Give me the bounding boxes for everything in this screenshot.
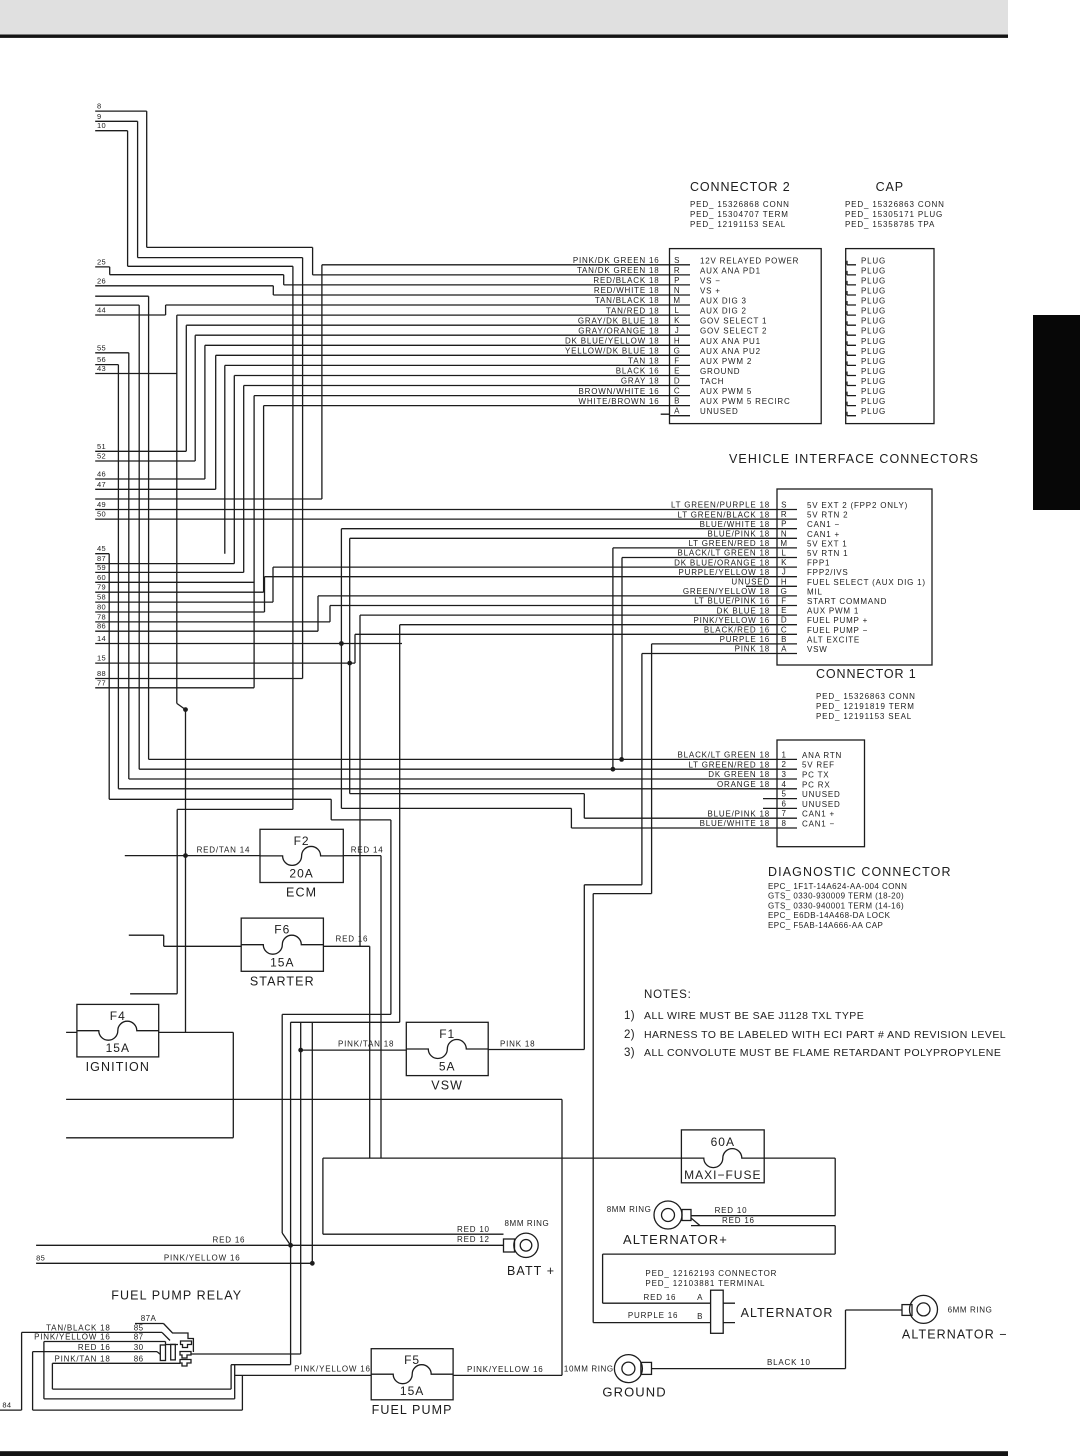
- svg-text:88: 88: [97, 669, 106, 678]
- svg-text:RED 16: RED 16: [722, 1216, 755, 1225]
- svg-text:VEHICLE INTERFACE CONNECTORS: VEHICLE INTERFACE CONNECTORS: [729, 452, 979, 466]
- svg-text:GOV SELECT 2: GOV SELECT 2: [700, 327, 767, 336]
- svg-text:RED 10: RED 10: [457, 1225, 490, 1234]
- svg-text:RED 16: RED 16: [78, 1343, 111, 1352]
- svg-text:AUX PWM 1: AUX PWM 1: [807, 607, 859, 616]
- svg-text:AUX ANA PU2: AUX ANA PU2: [700, 347, 761, 356]
- svg-text:PC RX: PC RX: [802, 780, 830, 789]
- svg-text:RED/BLACK 18: RED/BLACK 18: [593, 276, 659, 285]
- svg-text:CAN1 +: CAN1 +: [802, 810, 835, 819]
- svg-text:L: L: [675, 306, 680, 315]
- svg-text:BLUE/WHITE 18: BLUE/WHITE 18: [700, 520, 770, 529]
- svg-text:FUEL PUMP: FUEL PUMP: [372, 1403, 453, 1417]
- svg-text:FUEL PUMP −: FUEL PUMP −: [807, 626, 868, 635]
- svg-text:PLUG: PLUG: [861, 317, 886, 326]
- svg-text:DIAGNOSTIC CONNECTOR: DIAGNOSTIC CONNECTOR: [768, 865, 952, 879]
- svg-text:30: 30: [134, 1343, 144, 1352]
- svg-text:PED_ 12191819 TERM: PED_ 12191819 TERM: [816, 702, 915, 711]
- svg-text:H: H: [674, 336, 680, 345]
- svg-text:PED_ 12162193 CONNECTOR: PED_ 12162193 CONNECTOR: [645, 1269, 777, 1278]
- svg-text:MIL: MIL: [807, 587, 823, 596]
- svg-text:PURPLE 16: PURPLE 16: [628, 1311, 678, 1320]
- svg-text:60: 60: [97, 573, 106, 582]
- svg-text:DK BLUE/ORANGE 18: DK BLUE/ORANGE 18: [674, 558, 770, 567]
- svg-text:B: B: [697, 1312, 703, 1321]
- svg-text:BLACK/RED 16: BLACK/RED 16: [704, 626, 770, 635]
- svg-text:F: F: [781, 597, 786, 606]
- svg-text:M: M: [673, 296, 680, 305]
- svg-text:TAN/BLACK 18: TAN/BLACK 18: [46, 1324, 111, 1333]
- svg-text:GRAY/ORANGE 18: GRAY/ORANGE 18: [578, 326, 659, 335]
- svg-text:15: 15: [97, 654, 106, 663]
- svg-text:PLUG: PLUG: [861, 397, 886, 406]
- svg-text:TAN/BLACK 18: TAN/BLACK 18: [595, 296, 660, 305]
- svg-text:51: 51: [97, 442, 106, 451]
- svg-text:25: 25: [97, 257, 106, 266]
- svg-text:PINK/YELLOW 16: PINK/YELLOW 16: [693, 616, 770, 625]
- svg-text:PED_ 15358785 TPA: PED_ 15358785 TPA: [845, 220, 935, 229]
- svg-text:E: E: [781, 606, 787, 615]
- svg-text:FPP2/IVS: FPP2/IVS: [807, 568, 849, 577]
- svg-text:87: 87: [134, 1333, 144, 1342]
- svg-text:2: 2: [782, 760, 787, 769]
- svg-text:F6: F6: [274, 923, 290, 937]
- svg-text:BLACK 10: BLACK 10: [767, 1358, 811, 1367]
- svg-text:GRAY 18: GRAY 18: [621, 377, 660, 386]
- svg-text:D: D: [781, 616, 787, 625]
- svg-text:PED_ 15304707 TERM: PED_ 15304707 TERM: [690, 210, 789, 219]
- svg-text:TACH: TACH: [700, 377, 724, 386]
- svg-text:1: 1: [782, 750, 787, 759]
- svg-text:AUX ANA PD1: AUX ANA PD1: [700, 266, 761, 275]
- svg-text:DK BLUE/YELLOW 18: DK BLUE/YELLOW 18: [565, 337, 660, 346]
- svg-text:4: 4: [782, 780, 787, 789]
- svg-text:CAN1 +: CAN1 +: [807, 530, 840, 539]
- svg-text:47: 47: [97, 480, 106, 489]
- svg-text:BLUE/WHITE 18: BLUE/WHITE 18: [700, 819, 770, 828]
- svg-text:LT GREEN/BLACK 18: LT GREEN/BLACK 18: [678, 510, 770, 519]
- svg-text:8: 8: [782, 819, 787, 828]
- svg-text:PINK/YELLOW 16: PINK/YELLOW 16: [294, 1365, 371, 1374]
- svg-text:PINK/TAN 18: PINK/TAN 18: [54, 1355, 110, 1364]
- svg-text:P: P: [674, 276, 680, 285]
- svg-text:44: 44: [97, 306, 106, 315]
- svg-text:K: K: [674, 316, 680, 325]
- svg-text:PLUG: PLUG: [861, 407, 886, 416]
- svg-text:H: H: [781, 577, 787, 586]
- svg-text:86: 86: [97, 622, 106, 631]
- svg-text:N: N: [674, 286, 680, 295]
- svg-text:GRAY/DK BLUE 18: GRAY/DK BLUE 18: [578, 316, 660, 325]
- svg-text:PURPLE/YELLOW 18: PURPLE/YELLOW 18: [679, 568, 771, 577]
- svg-text:PINK/YELLOW 16: PINK/YELLOW 16: [467, 1365, 544, 1374]
- svg-text:CAN1 −: CAN1 −: [802, 820, 835, 829]
- svg-text:UNUSED: UNUSED: [700, 407, 739, 416]
- svg-text:AUX PWM 5: AUX PWM 5: [700, 387, 752, 396]
- svg-text:AUX DIG 2: AUX DIG 2: [700, 307, 747, 316]
- svg-text:VS −: VS −: [700, 276, 721, 285]
- svg-text:PINK/DK GREEN 16: PINK/DK GREEN 16: [573, 256, 660, 265]
- svg-text:C: C: [674, 387, 680, 396]
- svg-text:ALTERNATOR: ALTERNATOR: [741, 1306, 834, 1320]
- svg-text:PINK/YELLOW 16: PINK/YELLOW 16: [34, 1333, 111, 1342]
- svg-text:BATT +: BATT +: [507, 1264, 555, 1278]
- svg-text:84: 84: [2, 1401, 11, 1410]
- svg-text:80: 80: [97, 603, 106, 612]
- svg-text:PED_ 12191153 SEAL: PED_ 12191153 SEAL: [690, 220, 786, 229]
- svg-text:8MM RING: 8MM RING: [505, 1219, 550, 1228]
- svg-text:HARNESS TO BE LABELED WITH ECI: HARNESS TO BE LABELED WITH ECI PART # AN…: [644, 1029, 1006, 1041]
- svg-text:AUX DIG 3: AUX DIG 3: [700, 297, 747, 306]
- svg-text:IGNITION: IGNITION: [86, 1060, 150, 1074]
- svg-text:GTS_ 0330-930009 TERM (18-20): GTS_ 0330-930009 TERM (18-20): [768, 892, 904, 901]
- svg-text:RED 16: RED 16: [644, 1293, 677, 1302]
- svg-text:FUEL PUMP +: FUEL PUMP +: [807, 616, 868, 625]
- svg-text:NOTES:: NOTES:: [644, 989, 692, 1001]
- svg-text:VSW: VSW: [431, 1079, 463, 1093]
- svg-text:GROUND: GROUND: [602, 1385, 666, 1400]
- svg-text:START COMMAND: START COMMAND: [807, 597, 887, 606]
- svg-text:TAN/DK GREEN 18: TAN/DK GREEN 18: [577, 266, 660, 275]
- svg-text:PLUG: PLUG: [861, 297, 886, 306]
- svg-text:58: 58: [97, 593, 106, 602]
- svg-text:LT GREEN/PURPLE 18: LT GREEN/PURPLE 18: [671, 501, 770, 510]
- svg-text:5V REF: 5V REF: [802, 761, 835, 770]
- svg-text:ALL WIRE MUST BE SAE J1128 TXL: ALL WIRE MUST BE SAE J1128 TXL TYPE: [644, 1010, 864, 1022]
- svg-text:2): 2): [624, 1029, 635, 1041]
- svg-text:60A: 60A: [711, 1135, 735, 1149]
- svg-text:J: J: [782, 568, 787, 577]
- svg-text:S: S: [674, 256, 680, 265]
- svg-text:15A: 15A: [400, 1384, 424, 1398]
- svg-text:AUX PWM 5 RECIRC: AUX PWM 5 RECIRC: [700, 397, 791, 406]
- svg-text:UNUSED: UNUSED: [802, 800, 841, 809]
- svg-text:F5: F5: [404, 1353, 420, 1367]
- svg-text:3): 3): [624, 1047, 635, 1059]
- svg-text:GREEN/YELLOW 18: GREEN/YELLOW 18: [683, 587, 770, 596]
- svg-text:B: B: [781, 635, 787, 644]
- svg-text:5V RTN 1: 5V RTN 1: [807, 549, 848, 558]
- svg-text:VS +: VS +: [700, 287, 721, 296]
- svg-text:A: A: [781, 645, 787, 654]
- svg-text:S: S: [781, 501, 787, 510]
- svg-text:9: 9: [97, 112, 101, 121]
- svg-text:50: 50: [97, 510, 106, 519]
- svg-text:DK BLUE 18: DK BLUE 18: [717, 606, 770, 615]
- svg-text:15A: 15A: [106, 1041, 130, 1055]
- svg-text:J: J: [675, 326, 680, 335]
- svg-text:F4: F4: [110, 1009, 126, 1023]
- svg-text:A: A: [674, 407, 680, 416]
- svg-text:PINK 18: PINK 18: [735, 645, 770, 654]
- svg-text:VSW: VSW: [807, 645, 828, 654]
- svg-text:G: G: [674, 346, 681, 355]
- svg-text:20A: 20A: [289, 867, 313, 881]
- svg-text:FUEL PUMP RELAY: FUEL PUMP RELAY: [111, 1289, 242, 1303]
- svg-text:RED 10: RED 10: [715, 1206, 748, 1215]
- svg-text:45: 45: [97, 544, 106, 553]
- svg-text:UNUSED: UNUSED: [731, 578, 770, 587]
- svg-text:MAXI−FUSE: MAXI−FUSE: [684, 1168, 761, 1182]
- svg-text:6MM RING: 6MM RING: [948, 1306, 993, 1315]
- svg-text:85: 85: [134, 1324, 144, 1333]
- svg-text:R: R: [781, 510, 787, 519]
- svg-text:R: R: [674, 266, 680, 275]
- svg-text:PED_ 15326863 CONN: PED_ 15326863 CONN: [816, 692, 916, 701]
- svg-text:CAP: CAP: [876, 180, 904, 194]
- svg-text:CONNECTOR 2: CONNECTOR 2: [690, 180, 791, 194]
- svg-text:PLUG: PLUG: [861, 337, 886, 346]
- svg-text:87: 87: [97, 554, 106, 563]
- svg-text:ORANGE 18: ORANGE 18: [717, 780, 770, 789]
- svg-text:RED 16: RED 16: [336, 935, 369, 944]
- svg-text:14: 14: [97, 634, 106, 643]
- svg-text:PC TX: PC TX: [802, 771, 829, 780]
- svg-text:46: 46: [97, 470, 106, 479]
- svg-text:ALL CONVOLUTE MUST BE FLAME RE: ALL CONVOLUTE MUST BE FLAME RETARDANT PO…: [644, 1047, 1001, 1059]
- svg-text:G: G: [781, 587, 788, 596]
- svg-text:RED/TAN 14: RED/TAN 14: [197, 846, 251, 855]
- svg-text:N: N: [781, 529, 787, 538]
- svg-text:F1: F1: [439, 1027, 455, 1041]
- svg-text:15A: 15A: [270, 955, 294, 969]
- svg-text:PLUG: PLUG: [861, 256, 886, 265]
- svg-text:3: 3: [782, 770, 787, 779]
- svg-text:PINK/YELLOW 16: PINK/YELLOW 16: [164, 1254, 241, 1263]
- svg-text:EPC_ 1F1T-14A624-AA-004 CONN: EPC_ 1F1T-14A624-AA-004 CONN: [768, 882, 907, 891]
- svg-text:PED_ 15305171 PLUG: PED_ 15305171 PLUG: [845, 210, 943, 219]
- svg-text:E: E: [674, 367, 680, 376]
- svg-text:PINK/TAN 18: PINK/TAN 18: [338, 1040, 394, 1049]
- svg-text:10: 10: [97, 121, 106, 130]
- svg-text:A: A: [697, 1293, 703, 1302]
- svg-text:BLACK/LT GREEN 18: BLACK/LT GREEN 18: [678, 751, 770, 760]
- svg-text:GOV SELECT 1: GOV SELECT 1: [700, 317, 767, 326]
- svg-text:UNUSED: UNUSED: [802, 790, 841, 799]
- svg-text:56: 56: [97, 355, 106, 364]
- svg-text:5V EXT 1: 5V EXT 1: [807, 539, 848, 548]
- svg-text:5V EXT 2 (FPP2 ONLY): 5V EXT 2 (FPP2 ONLY): [807, 501, 908, 510]
- svg-text:87A: 87A: [141, 1314, 157, 1323]
- svg-text:BLACK/LT GREEN 18: BLACK/LT GREEN 18: [678, 549, 770, 558]
- svg-text:AUX PWM 2: AUX PWM 2: [700, 357, 752, 366]
- svg-text:PED_ 15326868 CONN: PED_ 15326868 CONN: [690, 200, 790, 209]
- svg-text:ALT EXCITE: ALT EXCITE: [807, 635, 860, 644]
- svg-text:BLUE/PINK 18: BLUE/PINK 18: [707, 809, 770, 818]
- svg-text:D: D: [674, 377, 680, 386]
- svg-text:M: M: [780, 539, 787, 548]
- svg-text:PLUG: PLUG: [861, 307, 886, 316]
- svg-text:10MM RING: 10MM RING: [564, 1365, 614, 1374]
- svg-text:59: 59: [97, 563, 106, 572]
- svg-text:12V RELAYED POWER: 12V RELAYED POWER: [700, 256, 799, 265]
- svg-text:78: 78: [97, 612, 106, 621]
- svg-text:FUEL SELECT (AUX DIG 1): FUEL SELECT (AUX DIG 1): [807, 578, 926, 587]
- svg-text:55: 55: [97, 343, 106, 352]
- svg-text:6: 6: [782, 799, 787, 808]
- svg-text:5: 5: [782, 790, 787, 799]
- svg-text:EPC_ E6DB-14A468-DA LOCK: EPC_ E6DB-14A468-DA LOCK: [768, 911, 891, 920]
- svg-text:B: B: [674, 397, 680, 406]
- svg-text:8: 8: [97, 102, 101, 111]
- svg-text:PLUG: PLUG: [861, 387, 886, 396]
- svg-text:86: 86: [134, 1355, 144, 1364]
- svg-text:BLUE/PINK 18: BLUE/PINK 18: [707, 530, 770, 539]
- svg-text:PLUG: PLUG: [861, 347, 886, 356]
- svg-text:BLACK 16: BLACK 16: [616, 367, 660, 376]
- svg-text:49: 49: [97, 500, 106, 509]
- svg-text:1): 1): [624, 1010, 635, 1022]
- svg-text:77: 77: [97, 678, 106, 687]
- svg-text:79: 79: [97, 583, 106, 592]
- svg-text:DK GREEN 18: DK GREEN 18: [708, 770, 770, 779]
- svg-text:LT BLUE/PINK 16: LT BLUE/PINK 16: [694, 597, 770, 606]
- svg-text:TAN/RED 18: TAN/RED 18: [606, 306, 660, 315]
- svg-text:FPP1: FPP1: [807, 559, 830, 568]
- svg-text:PLUG: PLUG: [861, 357, 886, 366]
- svg-text:GROUND: GROUND: [700, 367, 740, 376]
- svg-text:RED 12: RED 12: [457, 1235, 490, 1244]
- svg-text:STARTER: STARTER: [250, 974, 315, 988]
- svg-text:85: 85: [36, 1254, 45, 1263]
- svg-text:F2: F2: [294, 834, 310, 848]
- svg-text:F: F: [674, 356, 679, 365]
- svg-text:CONNECTOR 1: CONNECTOR 1: [816, 667, 917, 681]
- svg-text:PLUG: PLUG: [861, 276, 886, 285]
- svg-text:L: L: [782, 549, 787, 558]
- svg-text:PED_ 12103881 TERMINAL: PED_ 12103881 TERMINAL: [645, 1279, 765, 1288]
- svg-text:C: C: [781, 625, 787, 634]
- svg-text:PLUG: PLUG: [861, 287, 886, 296]
- svg-text:26: 26: [97, 276, 106, 285]
- svg-text:RED 16: RED 16: [213, 1236, 246, 1245]
- svg-text:5V RTN 2: 5V RTN 2: [807, 511, 848, 520]
- svg-text:PINK 18: PINK 18: [500, 1040, 535, 1049]
- svg-text:PLUG: PLUG: [861, 266, 886, 275]
- svg-text:ANA RTN: ANA RTN: [802, 751, 842, 760]
- svg-text:RED/WHITE 18: RED/WHITE 18: [594, 286, 660, 295]
- svg-text:PURPLE 16: PURPLE 16: [720, 635, 770, 644]
- svg-text:ECM: ECM: [286, 886, 317, 900]
- svg-text:TAN 18: TAN 18: [628, 357, 659, 366]
- svg-text:PLUG: PLUG: [861, 367, 886, 376]
- svg-text:K: K: [781, 558, 787, 567]
- svg-text:P: P: [781, 520, 787, 529]
- svg-text:YELLOW/DK BLUE 18: YELLOW/DK BLUE 18: [565, 347, 660, 356]
- svg-text:5A: 5A: [439, 1060, 456, 1074]
- svg-text:LT GREEN/RED 18: LT GREEN/RED 18: [688, 760, 770, 769]
- svg-text:7: 7: [782, 809, 787, 818]
- svg-text:EPC_ F5AB-14A666-AA CAP: EPC_ F5AB-14A666-AA CAP: [768, 921, 883, 930]
- svg-text:LT GREEN/RED 18: LT GREEN/RED 18: [688, 539, 770, 548]
- svg-text:WHITE/BROWN 16: WHITE/BROWN 16: [579, 397, 660, 406]
- svg-text:PED_ 12191153 SEAL: PED_ 12191153 SEAL: [816, 712, 912, 721]
- svg-text:RED 14: RED 14: [351, 846, 384, 855]
- svg-text:8MM RING: 8MM RING: [607, 1205, 652, 1214]
- svg-text:GTS_ 0330-940001 TERM (14-16): GTS_ 0330-940001 TERM (14-16): [768, 901, 904, 910]
- svg-text:52: 52: [97, 452, 106, 461]
- svg-text:PLUG: PLUG: [861, 327, 886, 336]
- svg-text:ALTERNATOR+: ALTERNATOR+: [623, 1232, 728, 1247]
- svg-text:AUX ANA PU1: AUX ANA PU1: [700, 337, 761, 346]
- svg-text:43: 43: [97, 364, 106, 373]
- svg-text:ALTERNATOR −: ALTERNATOR −: [902, 1328, 1008, 1342]
- svg-text:PED_ 15326863 CONN: PED_ 15326863 CONN: [845, 200, 945, 209]
- svg-text:CAN1 −: CAN1 −: [807, 520, 840, 529]
- svg-text:PLUG: PLUG: [861, 377, 886, 386]
- svg-text:BROWN/WHITE 16: BROWN/WHITE 16: [579, 387, 660, 396]
